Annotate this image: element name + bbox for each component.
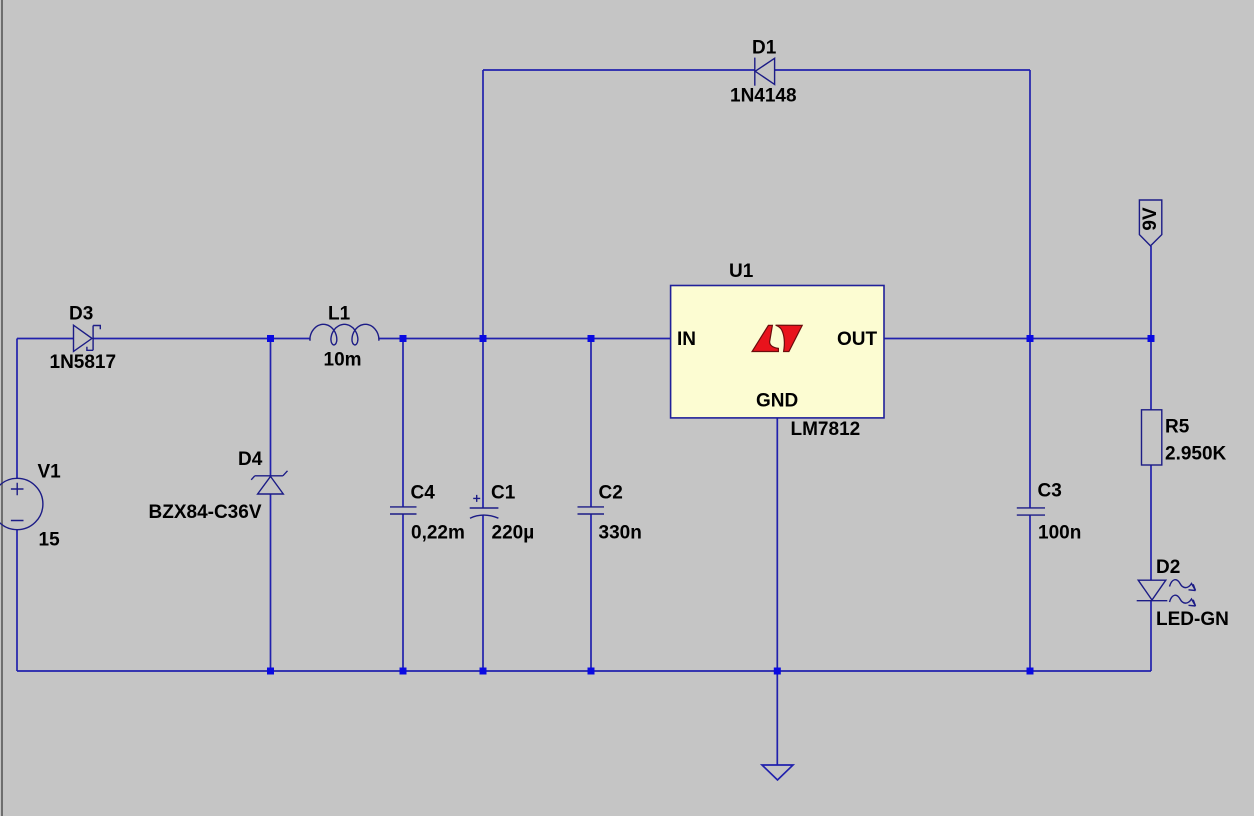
IC U1 LM7812 box [671, 286, 884, 418]
node bus/C2 [588, 335, 595, 342]
svg-text:LED-GN: LED-GN [1156, 609, 1229, 630]
svg-text:D4: D4 [238, 449, 263, 470]
svg-text:D1: D1 [752, 38, 777, 59]
wire main bus left [17, 338, 74, 340]
wire GND pin vertical [776, 418, 778, 765]
wire C3 vertical [1029, 70, 1031, 671]
svg-text:15: 15 [39, 530, 61, 551]
node gnd/C3 [1027, 668, 1034, 675]
node bus/R5 [1148, 335, 1155, 342]
node gnd/C1 [480, 668, 487, 675]
svg-text:9V: 9V [1140, 207, 1161, 231]
svg-text:L1: L1 [328, 304, 351, 325]
wire bottom bus [17, 670, 1151, 672]
wire right column [1150, 246, 1152, 671]
svg-text:220µ: 220µ [492, 523, 535, 544]
wire OUT bus [884, 338, 1151, 340]
svg-text:V1: V1 [38, 462, 62, 483]
wire top left [483, 69, 755, 71]
svg-text:R5: R5 [1165, 417, 1190, 438]
resistor R5 [1142, 410, 1162, 465]
LED light arrow 2 [1170, 595, 1196, 606]
node gnd/C2 [588, 668, 595, 675]
voltage source V1 [0, 478, 43, 529]
wire V1 vertical [16, 339, 18, 672]
net flag 9V [1139, 200, 1161, 246]
LED D2 [1137, 580, 1168, 601]
svg-text:C2: C2 [599, 483, 623, 504]
svg-text:1N5817: 1N5817 [50, 352, 117, 373]
svg-text:0,22m: 0,22m [411, 523, 465, 544]
wire C1 vertical [482, 70, 484, 671]
zener diode D4 [251, 471, 287, 494]
svg-text:C3: C3 [1038, 481, 1062, 502]
left window edge [1, 0, 3, 816]
node bus/C1 [480, 335, 487, 342]
wire D4 vertical [270, 339, 272, 672]
svg-text:D3: D3 [69, 304, 93, 325]
wire top right [775, 69, 1030, 71]
junction nodes [267, 335, 1155, 675]
wire C4 vertical [402, 339, 404, 672]
node bus/C3 [1027, 335, 1034, 342]
wire bus coil to U1 IN [379, 338, 671, 340]
capacitor C3 [1017, 508, 1045, 515]
node bus/D4 [267, 335, 274, 342]
wire C2 vertical [590, 339, 592, 672]
svg-text:LM7812: LM7812 [791, 419, 861, 440]
node gnd/C4 [400, 668, 407, 675]
svg-text:100n: 100n [1038, 523, 1081, 544]
LT logo [752, 325, 802, 351]
svg-text:OUT: OUT [837, 329, 878, 350]
capacitor C2 [578, 507, 605, 514]
node gnd/D4 [267, 668, 274, 675]
svg-text:C4: C4 [411, 483, 436, 504]
svg-text:C1: C1 [491, 483, 516, 504]
capacitor C4 [390, 507, 417, 514]
svg-text:1N4148: 1N4148 [730, 86, 797, 107]
LED light arrow 1 [1170, 580, 1196, 591]
inductor L1 [310, 324, 379, 345]
node bus/C4 [400, 335, 407, 342]
svg-text:IN: IN [677, 329, 696, 350]
node gnd/U1 [774, 668, 781, 675]
svg-text:BZX84-C36V: BZX84-C36V [149, 502, 262, 523]
diode D3 [74, 325, 101, 351]
ground [762, 765, 793, 780]
svg-text:10m: 10m [324, 350, 362, 371]
svg-text:2.950K: 2.950K [1165, 444, 1227, 465]
svg-text:GND: GND [756, 391, 798, 412]
wire main bus D3 to IN [93, 338, 310, 340]
svg-text:330n: 330n [599, 523, 642, 544]
svg-text:U1: U1 [729, 261, 754, 282]
diode D1 [755, 58, 775, 86]
svg-text:D2: D2 [1156, 557, 1180, 578]
capacitor C1 (polarized) [470, 495, 499, 518]
